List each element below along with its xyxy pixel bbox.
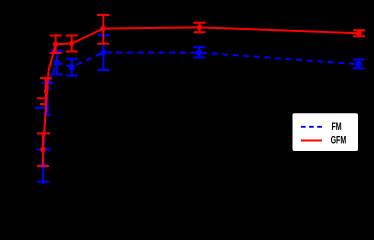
FM errorbar extra (x≈47.3)	[41, 83, 53, 115]
FM errorbar P4	[97, 35, 109, 70]
svg-text:GFM: GFM	[331, 134, 347, 146]
GFM errorbar extra (x≈45.8)	[40, 78, 52, 104]
FM errorbar P3	[66, 59, 78, 76]
series FM (blue dashed)	[35, 35, 365, 184]
FM errorbar P1	[36, 149, 50, 184]
legend FM dashed sample	[301, 126, 322, 128]
GFM errorbar P1	[37, 133, 50, 166]
GFM errorbar P6	[353, 30, 365, 36]
FM floating cap (x≈42, y≈107.9)	[35, 107, 50, 109]
FM errorbar P6	[353, 60, 365, 69]
GFM floating cap (x≈41.8, y≈98.3)	[37, 97, 47, 99]
GFM errorbar P4	[97, 15, 110, 44]
FM connecting dashed line	[43, 52, 359, 165]
GFM connecting solid line	[43, 27, 359, 149]
GFM errorbar P5	[194, 23, 206, 33]
legend GFM solid sample	[301, 140, 322, 142]
FM errorbar P2	[51, 51, 63, 75]
FM errorbar P5	[193, 47, 205, 57]
svg-text:FM: FM	[332, 120, 342, 132]
legend box	[293, 113, 359, 151]
series GFM (red solid)	[37, 15, 365, 166]
GFM circle markers	[40, 25, 362, 153]
GFM errorbar P2	[50, 36, 62, 53]
GFM errorbar P3	[66, 36, 78, 52]
FM square markers	[41, 50, 362, 168]
